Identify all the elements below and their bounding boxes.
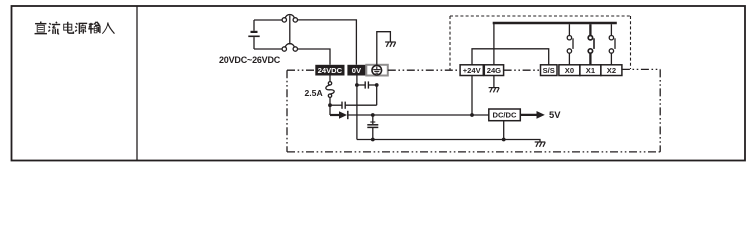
DC/DC converter U1	[489, 109, 521, 121]
wire battery- to switch bottom pole	[254, 48, 282, 50]
char 入	[102, 22, 114, 33]
terminal X2	[601, 65, 622, 76]
svg-text:5V: 5V	[549, 109, 561, 120]
24G chassis ground lead	[493, 76, 495, 88]
table outer border	[12, 6, 746, 161]
svg-text:24VDC: 24VDC	[318, 66, 343, 75]
external switch area (fine dashed box)	[450, 16, 631, 70]
char 流	[48, 22, 60, 34]
node on PE line	[375, 83, 379, 87]
electrolytic capacitor C3	[367, 113, 378, 141]
svg-text:S/S: S/S	[543, 66, 555, 75]
char 输	[88, 22, 100, 34]
capacitor C1 (on y=105 line)	[330, 102, 377, 109]
power switch S1 (2-pole breaker) top pole	[282, 14, 297, 22]
0V vertical wire down to bottom rail	[356, 76, 358, 140]
terminal PE (grounding screw, gray box)	[366, 65, 388, 76]
svg-text:X2: X2	[607, 66, 616, 75]
char 直	[35, 22, 47, 34]
wire +24V to S/S	[472, 49, 549, 65]
wire 24G up to common bus	[493, 24, 495, 65]
wire top pole to 0V terminal	[298, 20, 357, 65]
table column divider	[136, 6, 138, 161]
5V output arrow	[520, 111, 545, 119]
node DC/DC to rail	[502, 138, 506, 142]
svg-text:+24V: +24V	[463, 66, 482, 75]
node on 0V line	[355, 83, 359, 87]
+24V vertical wire	[471, 76, 473, 116]
svg-text:2.5A: 2.5A	[305, 88, 323, 98]
svg-text:24G: 24G	[487, 66, 501, 75]
node: fuse output junction	[328, 103, 332, 107]
svg-text:DC/DC: DC/DC	[492, 111, 517, 120]
fuse F1 2.5A	[326, 76, 334, 106]
switch mechanical link	[289, 15, 291, 44]
wire bottom pole to 24VDC terminal	[298, 49, 331, 65]
char 源	[75, 23, 87, 34]
power switch S1 bottom pole	[282, 44, 297, 52]
char 电	[64, 22, 74, 33]
terminal 24G	[484, 65, 503, 76]
chassis ground G2	[489, 88, 500, 93]
common input bus (thick)	[493, 22, 617, 25]
wire battery+ to switch top pole	[254, 19, 282, 21]
diode D1 (reverse protection, thick arrow)	[330, 105, 489, 119]
terminal 0V (black)	[347, 65, 365, 76]
terminal X1	[580, 65, 601, 76]
input switch SW0 (X0)	[567, 24, 573, 65]
svg-text:X0: X0	[565, 66, 574, 75]
wire cap line up to PE node	[376, 85, 378, 105]
svg-text:X1: X1	[586, 66, 596, 75]
node +24V feed on diode line	[470, 113, 474, 117]
wire PE terminal up to chassis ground	[377, 32, 391, 65]
terminal X0	[559, 65, 580, 76]
capacitor C2 (between 0V and PE verticals)	[357, 81, 377, 88]
chassis ground G3	[535, 142, 546, 147]
input switch SW2 (X2)	[609, 24, 615, 65]
svg-text:20VDC~26VDC: 20VDC~26VDC	[219, 55, 281, 65]
bottom 0V rail	[357, 140, 540, 143]
terminal S/S	[541, 65, 558, 76]
input switch SW1 (X1, closed path shown thick)	[588, 24, 594, 65]
battery B1 (20VDC~26VDC source)	[248, 20, 259, 49]
chassis ground G1	[385, 42, 396, 47]
PLC enclosure boundary (dash-dot)	[287, 69, 660, 151]
title text 直流电源输入 (hand-drawn CJK strokes)	[35, 22, 115, 34]
DC/DC ground lead	[503, 121, 505, 140]
terminal +24V	[460, 65, 483, 76]
terminal 24VDC (black)	[315, 65, 344, 76]
svg-text:0V: 0V	[352, 66, 362, 75]
